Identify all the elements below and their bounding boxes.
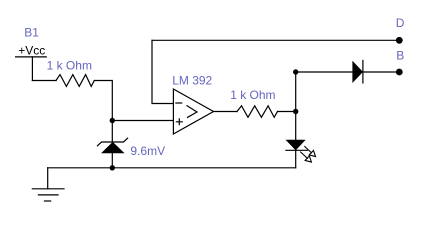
- resistor R1: [56, 75, 94, 87]
- svg-text:+Vcc: +Vcc: [18, 44, 45, 58]
- node A junction dot: [110, 118, 115, 123]
- LED D3: [286, 140, 307, 150]
- battery terminal B1 label: [24, 26, 39, 40]
- wire node C to LED: [295, 112, 297, 141]
- +Vcc supply symbol: [16, 44, 47, 81]
- wire diode D2 to terminal B: [363, 71, 399, 73]
- top rail wire to terminal D: [152, 39, 399, 41]
- svg-text:B1: B1: [24, 26, 39, 40]
- terminal D dot: [396, 37, 403, 44]
- svg-text:1 k Ohm: 1 k Ohm: [230, 88, 275, 102]
- terminal D label: [396, 16, 405, 30]
- ground rail wire: [48, 167, 296, 169]
- svg-text:1 k Ohm: 1 k Ohm: [47, 59, 92, 73]
- diode D2: [353, 60, 363, 83]
- op-amp U1 label LM 392: [172, 74, 212, 88]
- node B junction dot: [110, 165, 115, 170]
- ground: [32, 168, 64, 201]
- zener value label 9.6mV: [130, 144, 165, 158]
- wire node A to op-amp + input: [112, 120, 173, 122]
- wire op-amp output to R2: [214, 111, 238, 113]
- svg-text:9.6mV: 9.6mV: [130, 144, 165, 158]
- wire zener to ground rail: [111, 153, 113, 168]
- resistor R2 value label: [230, 88, 275, 102]
- wire Vcc to R1: [32, 80, 56, 82]
- node C junction dot: [293, 109, 298, 114]
- node E junction dot: [293, 69, 298, 74]
- terminal B label: [396, 48, 404, 62]
- wire node E to diode D2: [296, 71, 353, 73]
- op-amp U1: [173, 89, 213, 134]
- wire node A to zener: [111, 121, 113, 143]
- svg-text:B: B: [396, 48, 404, 62]
- resistor R1 value label: [47, 59, 92, 73]
- feedback wire top rail to op-amp - input: [152, 40, 173, 103]
- svg-text:LM 392: LM 392: [172, 74, 212, 88]
- wire node C up to node E: [295, 72, 297, 112]
- wire LED to ground rail: [295, 150, 297, 168]
- resistor R2: [237, 106, 278, 118]
- LED D3 arrows: [298, 144, 318, 164]
- wire R2 to node C: [278, 111, 296, 113]
- wire R1 to node A: [94, 81, 112, 121]
- svg-text:D: D: [396, 16, 405, 30]
- terminal B dot: [396, 69, 403, 76]
- zener diode D1: [97, 138, 127, 153]
